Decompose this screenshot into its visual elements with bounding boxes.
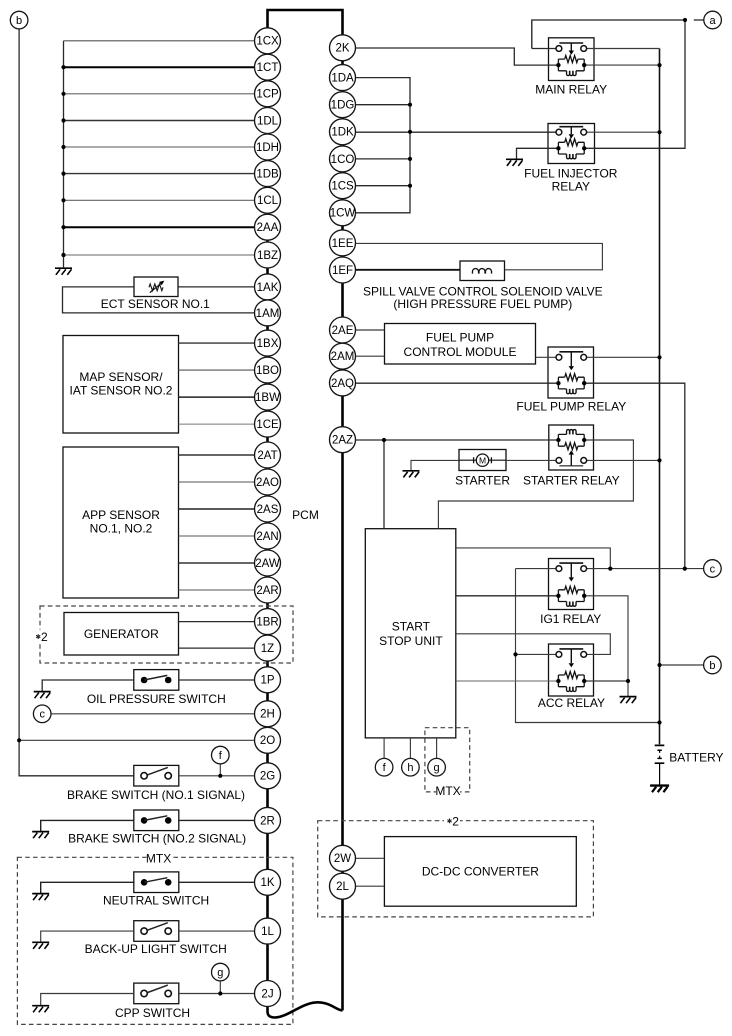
svg-text:IG1 RELAY: IG1 RELAY — [540, 612, 601, 626]
svg-text:FUEL PUMP: FUEL PUMP — [426, 331, 494, 345]
svg-text:g: g — [217, 967, 223, 979]
svg-text:1CP: 1CP — [256, 89, 279, 101]
svg-text:ECT SENSOR NO.1: ECT SENSOR NO.1 — [101, 297, 210, 311]
svg-text:1EE: 1EE — [332, 238, 354, 250]
svg-text:1EF: 1EF — [332, 265, 353, 277]
svg-text:1CX: 1CX — [256, 36, 279, 48]
svg-text:a: a — [710, 15, 717, 27]
svg-text:1AK: 1AK — [257, 282, 279, 294]
svg-text:MAIN RELAY: MAIN RELAY — [535, 82, 607, 96]
svg-text:IAT SENSOR NO.2: IAT SENSOR NO.2 — [70, 384, 173, 398]
svg-text:CPP SWITCH: CPP SWITCH — [115, 1006, 190, 1020]
svg-text:ACC RELAY: ACC RELAY — [538, 696, 605, 710]
svg-text:CONTROL MODULE: CONTROL MODULE — [404, 345, 517, 359]
svg-text:2AS: 2AS — [257, 504, 279, 516]
svg-text:BATTERY: BATTERY — [669, 750, 723, 764]
svg-text:2H: 2H — [260, 709, 275, 721]
svg-text:1CE: 1CE — [256, 419, 279, 431]
svg-text:APP SENSOR: APP SENSOR — [82, 508, 160, 522]
svg-text:STOP UNIT: STOP UNIT — [379, 634, 443, 648]
svg-text:FUEL PUMP RELAY: FUEL PUMP RELAY — [516, 400, 626, 414]
svg-text:2J: 2J — [261, 988, 273, 1000]
svg-text:STARTER RELAY: STARTER RELAY — [523, 474, 620, 488]
svg-text:1BW: 1BW — [255, 392, 280, 404]
svg-text:BRAKE SWITCH (NO.2 SIGNAL): BRAKE SWITCH (NO.2 SIGNAL) — [68, 832, 246, 846]
svg-text:1CL: 1CL — [257, 195, 279, 207]
svg-text:1CT: 1CT — [257, 62, 279, 74]
svg-text:2O: 2O — [260, 735, 275, 747]
svg-text:MTX: MTX — [146, 851, 171, 865]
svg-text:2AW: 2AW — [255, 558, 280, 570]
svg-text:1K: 1K — [260, 877, 274, 889]
svg-text:c: c — [710, 563, 716, 575]
svg-text:2W: 2W — [334, 853, 351, 865]
svg-text:DC-DC CONVERTER: DC-DC CONVERTER — [422, 865, 539, 879]
svg-text:2AT: 2AT — [257, 450, 277, 462]
svg-text:1DK: 1DK — [331, 127, 354, 139]
svg-text:1DH: 1DH — [256, 142, 279, 154]
svg-text:NO.1, NO.2: NO.1, NO.2 — [90, 522, 153, 536]
svg-text:MTX: MTX — [435, 784, 460, 798]
svg-text:2AA: 2AA — [257, 222, 279, 234]
svg-text:1BZ: 1BZ — [257, 250, 278, 262]
svg-text:M: M — [479, 456, 486, 466]
svg-text:1BR: 1BR — [256, 617, 278, 629]
svg-text:1CO: 1CO — [331, 154, 355, 166]
svg-text:1DB: 1DB — [256, 169, 279, 181]
svg-text:1DG: 1DG — [331, 100, 355, 112]
svg-text:2AE: 2AE — [332, 325, 354, 337]
svg-text:2AO: 2AO — [256, 477, 279, 489]
svg-text:START: START — [392, 619, 431, 633]
svg-text:1CW: 1CW — [330, 208, 356, 220]
svg-text:RELAY: RELAY — [552, 179, 590, 193]
svg-text:MAP SENSOR/: MAP SENSOR/ — [79, 370, 163, 384]
svg-text:GENERATOR: GENERATOR — [84, 627, 159, 641]
svg-text:STARTER: STARTER — [455, 474, 510, 488]
svg-text:2K: 2K — [335, 43, 349, 55]
svg-text:1CS: 1CS — [331, 181, 354, 193]
svg-text:2AN: 2AN — [256, 531, 278, 543]
svg-text:2: 2 — [452, 814, 459, 828]
svg-text:2AZ: 2AZ — [332, 435, 353, 447]
svg-text:2: 2 — [41, 630, 48, 644]
svg-text:PCM: PCM — [292, 508, 319, 522]
svg-text:1AM: 1AM — [256, 308, 280, 320]
svg-text:1L: 1L — [261, 926, 274, 938]
svg-text:1BX: 1BX — [257, 338, 279, 350]
svg-text:BRAKE SWITCH (NO.1 SIGNAL): BRAKE SWITCH (NO.1 SIGNAL) — [67, 788, 245, 802]
svg-text:h: h — [407, 762, 413, 774]
svg-text:2AR: 2AR — [256, 585, 278, 597]
svg-text:1DL: 1DL — [257, 115, 279, 127]
svg-text:2AQ: 2AQ — [331, 378, 354, 390]
svg-text:OIL PRESSURE SWITCH: OIL PRESSURE SWITCH — [87, 692, 226, 706]
svg-text:BACK-UP LIGHT SWITCH: BACK-UP LIGHT SWITCH — [85, 942, 227, 956]
svg-text:1Z: 1Z — [261, 643, 274, 655]
svg-text:2R: 2R — [260, 815, 275, 827]
svg-text:2AM: 2AM — [331, 351, 355, 363]
svg-text:1DA: 1DA — [331, 73, 354, 85]
svg-text:b: b — [709, 660, 715, 672]
svg-text:2G: 2G — [260, 771, 275, 783]
svg-text:g: g — [434, 762, 440, 774]
svg-text:NEUTRAL SWITCH: NEUTRAL SWITCH — [103, 894, 209, 908]
svg-text:1BO: 1BO — [256, 365, 279, 377]
svg-text:(HIGH PRESSURE FUEL PUMP): (HIGH PRESSURE FUEL PUMP) — [393, 297, 572, 311]
svg-text:c: c — [39, 709, 45, 721]
svg-text:2L: 2L — [336, 881, 349, 893]
svg-text:b: b — [16, 15, 22, 27]
svg-text:1P: 1P — [260, 675, 274, 687]
